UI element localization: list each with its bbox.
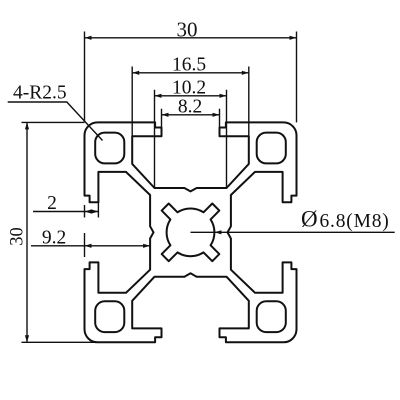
arrowheads dim 16.5	[132, 71, 139, 75]
dim 30 left dimension line	[26, 122, 28, 342]
arrowheads dim 30 left	[25, 122, 29, 129]
svg-text:16.5: 16.5	[172, 55, 206, 76]
svg-text:30: 30	[177, 18, 198, 42]
arrowheads dim 10.2	[155, 94, 162, 98]
svg-text:6.8(M8): 6.8(M8)	[320, 211, 390, 232]
leader 4-R2.5	[8, 102, 103, 141]
dim 30 top extension lines	[85, 32, 297, 123]
dim 30 top dimension line	[85, 37, 297, 39]
arrowhead leader Ø6.8	[214, 230, 221, 234]
dim 8.2 extension lines	[162, 109, 220, 128]
dim 30 left extension lines	[22, 122, 97, 342]
corner channel hole top-right	[257, 133, 286, 164]
svg-text:2: 2	[47, 193, 57, 214]
dim 10.2 extension lines	[155, 90, 227, 188]
dim 9.2 extension line	[84, 233, 86, 257]
arrowheads dim 2	[85, 209, 92, 213]
profile outer boundary with four T-slots	[85, 122, 297, 342]
dim 10.2 dimension line	[155, 95, 227, 97]
svg-text:Ø: Ø	[301, 207, 318, 232]
svg-text:30: 30	[8, 227, 28, 246]
leader Ø6.8(M8)	[191, 231, 395, 233]
dim 16.5 extension lines	[132, 67, 249, 137]
dim 2 extension line	[85, 202, 99, 217]
arrowheads dim 30 top	[85, 36, 92, 40]
dim 16.5 dimension line	[132, 72, 249, 74]
svg-text:10.2: 10.2	[172, 78, 206, 99]
corner channel hole bottom-left	[95, 301, 124, 332]
corner channel hole top-left	[95, 133, 124, 164]
dim 9.2 dimension line	[31, 245, 150, 247]
arrowheads dim 8.2	[162, 113, 169, 117]
center bore hole with cross slits	[162, 204, 220, 262]
svg-text:4-R2.5: 4-R2.5	[13, 83, 67, 104]
dim 8.2 dimension line	[162, 114, 220, 116]
dim 2 dimension line	[33, 211, 98, 213]
svg-text:9.2: 9.2	[42, 228, 66, 249]
corner channel hole bottom-right	[257, 301, 286, 332]
arrowheads dim 9.2	[85, 244, 92, 248]
svg-text:8.2: 8.2	[178, 97, 202, 118]
